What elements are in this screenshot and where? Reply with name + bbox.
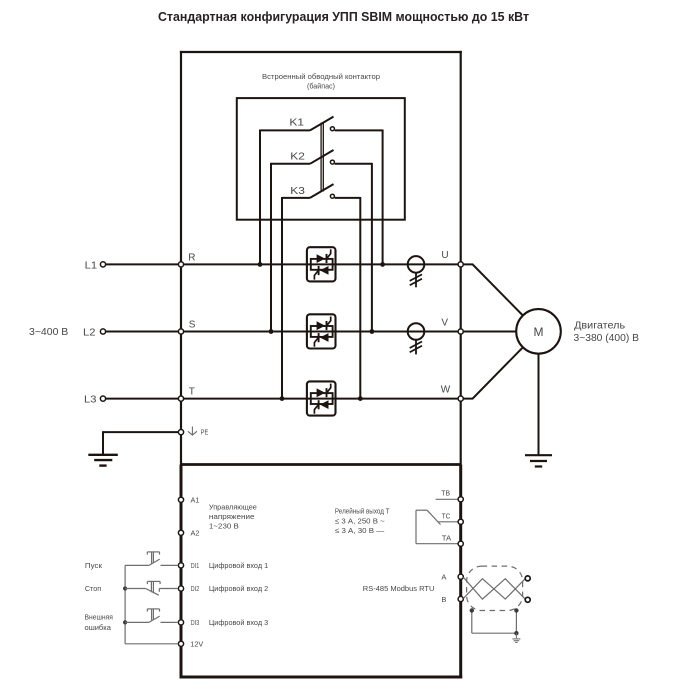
svg-text:A2: A2: [191, 528, 200, 537]
terminal ring 12V: [178, 641, 183, 646]
junction dot bus/Error: [123, 620, 127, 624]
push button Pusk (DI1, NO): [125, 552, 178, 566]
node ring V: [458, 329, 463, 334]
svg-text:K3: K3: [290, 185, 305, 197]
svg-text:Релейный выход Т: Релейный выход Т: [335, 507, 390, 516]
wire L3 input: [106, 398, 181, 400]
junction K1 right on R: [380, 262, 385, 267]
wire L1 input: [106, 263, 181, 265]
svg-text:U: U: [441, 250, 448, 261]
svg-text:1~230 В: 1~230 В: [209, 521, 239, 530]
junction K3 left on T: [280, 396, 285, 401]
terminal ring DI1: [178, 563, 183, 568]
main enclosure box (power section): [180, 51, 462, 465]
contactor K1: [260, 117, 383, 131]
external button bus: [124, 565, 126, 643]
junction K1 left on R: [258, 262, 263, 267]
wire phase T: [181, 398, 461, 400]
svg-text:Цифровой вход 1: Цифровой вход 1: [209, 561, 268, 570]
wire L2 input: [106, 331, 181, 333]
relay output T: [416, 499, 458, 543]
svg-text:L1: L1: [85, 260, 98, 271]
svg-text:Внешняя: Внешняя: [85, 613, 113, 622]
junction K2 left on S: [269, 329, 274, 334]
terminal ring TC: [458, 519, 463, 524]
main enclosure box (control section, thicker): [180, 465, 463, 679]
svg-text:TB: TB: [441, 488, 450, 497]
svg-text:A: A: [441, 572, 446, 581]
terminal ring A1: [178, 497, 183, 502]
wire K1 left drop: [259, 130, 261, 265]
terminal circle L3: [100, 396, 105, 401]
shield drop left: [471, 611, 473, 634]
svg-text:M: M: [534, 325, 544, 339]
node ring PE: [178, 430, 183, 435]
motor M: [516, 309, 561, 354]
junction dot shield earth: [514, 631, 518, 635]
svg-text:DI2: DI2: [191, 584, 199, 593]
thyristor module VS1 (phase R): [307, 247, 336, 281]
junction dot shield right: [514, 608, 518, 612]
svg-text:≤ 3 А, 250 В ~: ≤ 3 А, 250 В ~: [335, 516, 385, 525]
wire K2 left drop: [270, 163, 272, 332]
wire K3 right drop: [359, 197, 361, 399]
svg-text:RS-485 Modbus RTU: RS-485 Modbus RTU: [363, 584, 435, 593]
wire K3 left drop: [281, 197, 283, 399]
svg-text:Цифровой вход 3: Цифровой вход 3: [209, 618, 268, 627]
svg-text:ошибка: ошибка: [85, 623, 112, 632]
thyristor module VS3 (phase T): [307, 381, 336, 415]
terminal circle L1: [100, 262, 105, 267]
wire W to motor: [464, 347, 523, 398]
svg-text:B: B: [441, 595, 446, 604]
twisted pair end circle top: [525, 576, 530, 581]
wire U to motor: [464, 264, 523, 315]
motor earth ground: [525, 455, 552, 466]
svg-text:K1: K1: [289, 117, 304, 129]
terminal ring TB: [458, 497, 463, 502]
junction dot bus/Stop: [123, 586, 127, 590]
push button Error (DI3, NO): [125, 609, 178, 623]
svg-text:(байпас): (байпас): [307, 82, 335, 91]
current transformer on V: [408, 323, 425, 354]
terminal ring A2: [178, 530, 183, 535]
svg-text:Пуск: Пуск: [85, 561, 103, 570]
svg-text:R: R: [188, 252, 195, 263]
node ring U: [458, 262, 463, 267]
PE wire: [103, 431, 181, 433]
svg-text:T: T: [189, 387, 195, 398]
PE drop: [102, 431, 104, 455]
svg-text:PE: PE: [201, 427, 209, 436]
wire K2 right drop: [371, 163, 373, 332]
svg-text:≤ 3 А, 30 В —: ≤ 3 А, 30 В —: [335, 526, 385, 535]
svg-text:V: V: [441, 317, 448, 328]
junction K3 right on T: [358, 396, 363, 401]
shield drop right: [515, 611, 517, 634]
svg-text:K2: K2: [290, 150, 305, 162]
push button Stop (DI2, NC): [125, 581, 178, 595]
svg-text:Управляющее: Управляющее: [209, 502, 257, 511]
svg-text:Цифровой вход 2: Цифровой вход 2: [209, 584, 268, 593]
cable shield (dashed): [467, 566, 523, 610]
contactor K2: [271, 150, 372, 164]
junction dot shield left: [470, 608, 474, 612]
node ring R/L1: [178, 262, 183, 267]
shield bottom wire: [472, 632, 517, 634]
terminal ring B: [458, 596, 463, 601]
svg-text:3~400 В: 3~400 В: [29, 327, 69, 338]
svg-text:TA: TA: [442, 533, 451, 542]
mechanical link of K1-K3: [321, 123, 323, 192]
contactor K3: [282, 184, 360, 198]
junction K2 right on S: [370, 329, 375, 334]
svg-text:Стоп: Стоп: [85, 584, 101, 593]
wire phase R: [181, 263, 461, 265]
svg-text:DI3: DI3: [191, 618, 199, 627]
wire motor to earth: [538, 354, 540, 455]
svg-text:Двигатель: Двигатель: [574, 320, 625, 331]
PE arrow symbol: [188, 426, 197, 435]
current transformer on U: [408, 256, 425, 287]
shield earth symbol: [512, 633, 520, 642]
node ring S/L2: [178, 329, 183, 334]
svg-text:Стандартная конфигурация УПП S: Стандартная конфигурация УПП SBIM мощнос…: [158, 9, 529, 24]
svg-text:TC: TC: [442, 511, 451, 520]
svg-text:DI1: DI1: [191, 561, 199, 570]
wire phase S: [181, 331, 461, 333]
terminal ring A: [458, 574, 463, 579]
terminal circle L2: [100, 329, 105, 334]
thyristor module VS2 (phase S): [307, 314, 336, 348]
terminal ring DI2: [178, 586, 183, 591]
twisted pair end circle bottom: [525, 597, 530, 602]
svg-text:3~380 (400) В: 3~380 (400) В: [574, 333, 640, 344]
wire V to motor: [464, 331, 517, 333]
svg-text:A1: A1: [191, 495, 200, 504]
wire K1 right drop: [382, 130, 384, 265]
svg-text:напряжение: напряжение: [209, 512, 255, 521]
svg-text:S: S: [189, 320, 196, 331]
svg-text:12V: 12V: [190, 639, 203, 648]
twisted pair wire 1: [463, 577, 525, 599]
node ring W: [458, 396, 463, 401]
PE earth ground: [88, 455, 118, 466]
terminal ring TA: [458, 541, 463, 546]
twisted pair wire 2: [463, 579, 525, 599]
bypass contactor box: [237, 98, 405, 220]
terminal ring DI3: [178, 620, 183, 625]
svg-text:Встроенный обводный контактор: Встроенный обводный контактор: [262, 72, 380, 81]
svg-text:W: W: [441, 385, 451, 396]
svg-text:L3: L3: [84, 395, 97, 406]
node ring T/L3: [178, 396, 183, 401]
svg-text:L2: L2: [83, 327, 96, 338]
